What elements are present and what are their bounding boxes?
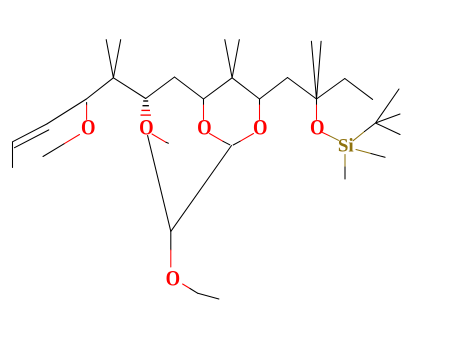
bond C8-O4 vertical stub	[259, 99, 261, 105]
bond C2-C1a allylic	[47, 99, 87, 124]
bond O1-ethyl tail	[64, 135, 80, 144]
bond C3 gem-dimethyl right	[113, 40, 120, 78]
bond C2-C3	[86, 78, 113, 99]
bond O6-ethyl tail segment 1	[183, 284, 190, 289]
dioxane ring bond C6-C7	[204, 78, 233, 99]
svg-text:O: O	[166, 265, 181, 290]
bond C10 methyl wedge left edge	[311, 41, 316, 99]
bond C7 gem-dimethyl right	[232, 40, 239, 78]
bond C1b terminal methyl	[12, 142, 14, 168]
bond tBu methyl down-right	[376, 123, 401, 135]
bond C11-C12 terminal	[345, 79, 373, 100]
bond C10-O5 vertical stub	[316, 99, 318, 105]
double bond C1a=C1b second line	[15, 130, 49, 148]
bond acetal CH to CH(OMe) long leg right	[171, 146, 232, 232]
dioxane ring bond C7-C8	[232, 78, 259, 99]
bond C10-C11	[317, 79, 345, 100]
bond tBu methyl up-right shallow	[376, 114, 401, 123]
bond CH-O6 vertical stub	[170, 231, 172, 250]
bond C2-O1 vertical stub	[86, 103, 88, 106]
hashed wedge bond C4-O2 (stereo)	[141, 101, 151, 115]
bond C4-C5	[146, 77, 175, 99]
bond O2-methyl tail	[152, 134, 166, 142]
bond O6-ethyl tail segment 2	[198, 293, 219, 299]
bond Si methyl down	[344, 155, 346, 168]
svg-text:O: O	[81, 114, 96, 139]
bond Si methyl right	[356, 150, 371, 154]
bond C7 gem-dimethyl left	[225, 40, 232, 78]
bond C6-O3 vertical stub	[203, 99, 205, 105]
bond C5-C6	[175, 77, 204, 99]
bond Si-C quaternary (tBu)	[353, 132, 365, 141]
svg-text:O: O	[253, 114, 268, 139]
bond O5-Si	[323, 133, 330, 136]
double bond C1a=C1b main line	[13, 124, 47, 142]
bond C3-C4	[113, 78, 145, 99]
svg-text:O: O	[139, 114, 154, 139]
bond O4-acetal CH	[240, 134, 254, 142]
bond tBu methyl steep up-right	[376, 89, 400, 123]
svg-text:O: O	[310, 114, 325, 139]
svg-text:Si: Si	[338, 136, 354, 157]
bond C8-C9	[260, 78, 288, 100]
bond O3-acetal CH	[210, 134, 224, 142]
bond C3 gem-dimethyl left	[106, 40, 113, 78]
svg-text:O: O	[197, 114, 212, 139]
bond C9-C10	[288, 78, 317, 100]
bond O2 to CH long leg left	[148, 136, 171, 232]
bond C10 methyl wedge right edge	[317, 41, 322, 99]
